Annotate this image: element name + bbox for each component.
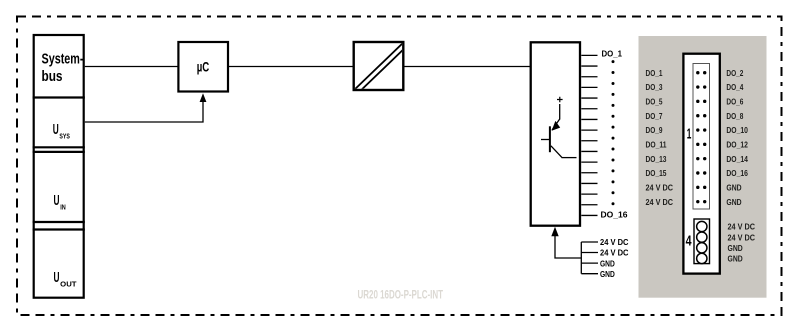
svg-text:DO_2: DO_2 (726, 68, 743, 78)
connector 4 pin 4 (697, 253, 707, 263)
wire system bus to microcontroller (85, 66, 179, 68)
wire supply stub 24 V DC 2 (581, 252, 598, 254)
wire Usys to microcontroller (arrow) (85, 101, 203, 122)
wire isolation to output driver (404, 66, 531, 68)
wire output stub DO_5 (581, 97, 597, 99)
wire supply stub GND 4 (581, 273, 598, 275)
transistor Q1 (PNP high-side) (541, 97, 577, 158)
svg-text:DO_16: DO_16 (726, 168, 748, 178)
wire output stub DO_13 (581, 182, 597, 184)
svg-text:DO_14: DO_14 (726, 154, 748, 164)
svg-text:DO_4: DO_4 (726, 82, 743, 92)
svg-text:DO_5: DO_5 (646, 97, 663, 107)
svg-text:DO_12: DO_12 (726, 140, 748, 150)
microcontroller U1 (178, 42, 228, 92)
wire output stub DO_3 (581, 76, 597, 78)
svg-text:System-: System- (42, 51, 84, 68)
svg-text:U: U (53, 122, 59, 138)
svg-text:DO_7: DO_7 (646, 111, 663, 121)
svg-text:µC: µC (197, 60, 210, 75)
svg-text:DO_8: DO_8 (726, 111, 743, 121)
svg-text:DO_1: DO_1 (602, 49, 623, 59)
wire output stub DO_14 (581, 193, 597, 195)
connector 4 pin field (694, 219, 710, 264)
connector 4 pin 3 (697, 243, 707, 253)
svg-text:OUT: OUT (60, 279, 77, 288)
svg-text:24 V DC: 24 V DC (728, 222, 756, 232)
svg-text:DO_3: DO_3 (646, 82, 663, 92)
svg-text:DO_10: DO_10 (726, 125, 748, 135)
svg-text:U: U (54, 193, 60, 209)
isolation divider Usys / Uin (33, 146, 85, 148)
wire output stub DO_16 (581, 214, 597, 216)
wire output stub DO_1 (581, 54, 597, 56)
svg-text:U: U (54, 270, 60, 286)
connector 4 pin 1 (697, 221, 707, 231)
connector 1 pin field (693, 64, 710, 210)
svg-text:DO_6: DO_6 (726, 97, 743, 107)
svg-text:24 V DC: 24 V DC (728, 232, 756, 242)
ellipsis dots DO_2..DO_15 (612, 60, 615, 205)
svg-text:SYS: SYS (59, 131, 70, 140)
wire output stub DO_6 (581, 108, 597, 110)
svg-text:DO_1: DO_1 (646, 68, 663, 78)
svg-text:4: 4 (686, 232, 692, 249)
svg-text:GND: GND (726, 183, 741, 193)
connector 4 pin 2 (697, 232, 707, 242)
wire output stub DO_7 (581, 118, 597, 120)
supply bus vertical (580, 242, 582, 274)
wire output stub DO_15 (581, 204, 597, 206)
wire output stub DO_12 (581, 172, 597, 174)
svg-text:24 V DC: 24 V DC (600, 248, 629, 258)
isolation divider Uin / Uout (33, 221, 85, 223)
svg-text:GND: GND (600, 269, 615, 279)
svg-text:GND: GND (726, 197, 741, 207)
wire output stub DO_11 (581, 161, 597, 163)
wire supply stub 24 V DC 1 (581, 241, 598, 243)
svg-text:GND: GND (728, 254, 743, 264)
svg-text:UR20 16DO-P-PLC-INT: UR20 16DO-P-PLC-INT (358, 287, 444, 301)
terminal panel background (639, 36, 767, 298)
svg-text:GND: GND (728, 243, 743, 253)
svg-text:24 V DC: 24 V DC (646, 197, 674, 207)
output driver block (531, 42, 580, 225)
svg-text:bus: bus (42, 68, 63, 85)
wire supply feed to driver (arrow) (555, 235, 581, 258)
wire output stub DO_2 (581, 65, 597, 67)
wire output stub DO_8 (581, 129, 597, 131)
wire microcontroller to isolation (228, 66, 354, 68)
divider system-bus / Usys (33, 96, 85, 98)
svg-text:DO_9: DO_9 (646, 125, 663, 135)
svg-text:24 V DC: 24 V DC (600, 237, 629, 247)
wire output stub DO_4 (581, 86, 597, 88)
system/power block outline (34, 35, 84, 298)
svg-text:DO_16: DO_16 (601, 210, 628, 220)
connector housing (683, 54, 719, 274)
wire output stub DO_9 (581, 140, 597, 142)
wire output stub DO_10 (581, 150, 597, 152)
svg-text:DO_13: DO_13 (646, 154, 667, 164)
svg-text:DO_11: DO_11 (646, 140, 667, 150)
svg-text:24 V DC: 24 V DC (646, 183, 674, 193)
svg-text:IN: IN (60, 202, 65, 211)
isolation barrier (DC/DC) (354, 42, 404, 90)
svg-text:1: 1 (687, 126, 692, 143)
svg-text:GND: GND (600, 258, 615, 268)
wire supply stub GND 3 (581, 262, 598, 264)
svg-text:DO_15: DO_15 (646, 168, 667, 178)
